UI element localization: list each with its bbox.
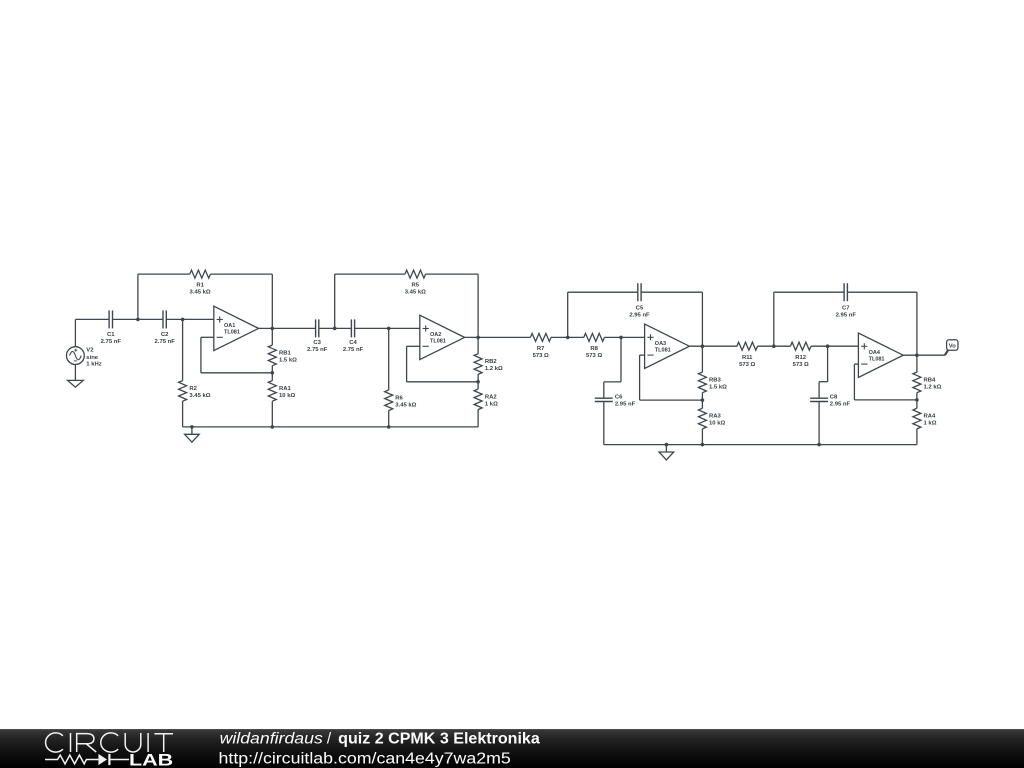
node OA4 output junction (915, 353, 919, 357)
wire OA1 output to C3 (259, 327, 316, 329)
node C8 rail junction (817, 443, 821, 447)
svg-text:C6: C6 (615, 395, 623, 401)
wire node E to OA2 plus input (389, 327, 420, 329)
wire OA1 minus input left (201, 336, 214, 338)
capacitor C6 2.95 nF (595, 395, 636, 408)
svg-text:3.45 kΩ: 3.45 kΩ (189, 393, 210, 399)
svg-text:RB2: RB2 (485, 359, 498, 365)
op-amp OA3 TL081 (645, 324, 690, 368)
svg-text:573 Ω: 573 Ω (533, 353, 549, 359)
svg-text:C5: C5 (636, 306, 644, 312)
svg-text:R2: R2 (189, 386, 197, 392)
svg-text:RA2: RA2 (485, 395, 498, 401)
svg-text:1.2 kΩ: 1.2 kΩ (485, 366, 503, 372)
node OA1 output junction (271, 327, 275, 331)
logo resistor-diode symbol (45, 754, 129, 765)
svg-text:2.95 nF: 2.95 nF (836, 312, 857, 318)
wire node A to C2 (138, 318, 163, 320)
wire OA4 minus feedback bottom (854, 399, 917, 401)
wire node A up to R1 feedback (137, 274, 139, 319)
svg-text:TL081: TL081 (224, 330, 240, 336)
wire OA2 minus input left (407, 345, 420, 347)
output flag pin (945, 350, 948, 355)
svg-text:C3: C3 (313, 340, 321, 346)
wire OA3 minus feedback bottom (640, 399, 703, 401)
svg-text:C8: C8 (830, 395, 838, 401)
ground rail stage 3-4 (604, 444, 917, 446)
resistor RA4 1 k (913, 400, 937, 445)
footer url line (219, 751, 511, 768)
wire node F to R8 (568, 336, 584, 338)
svg-text:10 kΩ: 10 kΩ (709, 421, 725, 427)
svg-text:1.5 kΩ: 1.5 kΩ (709, 385, 727, 391)
svg-text:R1: R1 (196, 282, 204, 288)
svg-text:RA3: RA3 (709, 414, 722, 420)
svg-text:C1: C1 (107, 332, 115, 338)
node H junction (772, 344, 776, 348)
resistor RA2 1 k (474, 382, 498, 427)
capacitor C8 2.95 nF (810, 395, 850, 408)
svg-text:Vo: Vo (949, 343, 956, 349)
svg-text:C2: C2 (161, 332, 169, 338)
resistor R2 3.45 k (179, 381, 211, 402)
resistor RA1 10 k (268, 373, 295, 427)
svg-text:/: / (327, 731, 332, 748)
wire node G down (620, 337, 622, 382)
wire R7 to node F (551, 336, 568, 338)
wire C5 feedback left segment (568, 291, 638, 293)
wire OA2 output to R7 (465, 336, 531, 338)
wire OA1 minus feedback bottom (201, 372, 272, 374)
wire R11 to node H (758, 345, 774, 347)
svg-text:TL081: TL081 (655, 347, 671, 353)
node E junction (387, 327, 391, 331)
wire R5 feedback right segment (426, 273, 479, 275)
wire node H up to C7 feedback (773, 292, 775, 346)
resistor RA3 10 k (698, 400, 725, 445)
svg-text:OA3: OA3 (655, 341, 666, 347)
wire node B to OA1 plus input (183, 318, 214, 320)
op-amp OA1 TL081 (214, 306, 259, 350)
wire OA1 minus down (200, 337, 202, 373)
svg-text:2.95 nF: 2.95 nF (830, 401, 851, 407)
svg-text:R8: R8 (590, 346, 598, 352)
svg-text:quiz 2 CPMK 3 Elektronika: quiz 2 CPMK 3 Elektronika (338, 731, 540, 748)
wire node B down to R2 (182, 319, 184, 380)
wire OA3 minus down (639, 355, 641, 400)
svg-text:573 Ω: 573 Ω (793, 362, 809, 368)
wire node I down (827, 346, 829, 382)
capacitor C5 2.95 nF (629, 283, 650, 318)
resistor R5 3.45 k (405, 270, 426, 295)
node OA2 output junction (476, 336, 480, 340)
svg-text:V2: V2 (86, 348, 94, 354)
wire V2 bottom (74, 365, 76, 381)
svg-text:TL081: TL081 (430, 339, 446, 345)
node F junction (566, 336, 570, 340)
wire R12 to node I (811, 345, 828, 347)
ground rail stage 1-2 (183, 426, 479, 428)
svg-text:R12: R12 (795, 355, 807, 361)
capacitor C3 2.75 nF (307, 319, 328, 353)
wire C7 feedback left segment (774, 291, 844, 293)
wire OA4 output to Vo (903, 354, 945, 356)
svg-text:C7: C7 (842, 306, 850, 312)
resistor RB1 1.5 k (268, 328, 297, 372)
wire C4 to node E (355, 327, 389, 329)
svg-text:R7: R7 (537, 346, 545, 352)
svg-text:R6: R6 (395, 395, 403, 401)
wire C7 feedback down to OA4 output (916, 292, 918, 355)
resistor RB3 1.5 k (698, 346, 727, 400)
footer bar (0, 729, 1024, 768)
node RA1 rail junction (271, 425, 275, 429)
svg-text:OA1: OA1 (224, 323, 235, 329)
node R6 rail junction (387, 425, 391, 429)
svg-text:1.5 kΩ: 1.5 kΩ (279, 358, 297, 364)
wire OA4 minus down (853, 364, 855, 400)
svg-text:LAB: LAB (129, 751, 173, 768)
wire C2 to node B (166, 318, 182, 320)
wire C6 to ground rail (603, 402, 605, 445)
ground below V2 (68, 380, 84, 387)
ground symbol stage 1-2 (185, 427, 200, 442)
wire node G to OA3 plus input (621, 336, 645, 338)
svg-text:R11: R11 (742, 355, 753, 361)
svg-text:1 kΩ: 1 kΩ (924, 421, 937, 427)
op-amp OA2 TL081 (420, 315, 465, 359)
node A junction (136, 318, 140, 322)
svg-text:RA4: RA4 (924, 414, 937, 420)
wire feedback top right segment (210, 273, 272, 275)
wire R5 feedback down to OA2 output (477, 274, 479, 337)
logo word CIRCUIT (46, 733, 173, 752)
svg-text:R5: R5 (412, 282, 420, 288)
node Vo output flag (947, 340, 958, 350)
wire OA3 minus input left (640, 354, 645, 356)
svg-text:RA1: RA1 (279, 386, 292, 392)
svg-text:RB1: RB1 (279, 351, 292, 357)
svg-text:2.95 nF: 2.95 nF (615, 401, 636, 407)
svg-text:C4: C4 (349, 340, 357, 346)
svg-text:10 kΩ: 10 kΩ (279, 393, 295, 399)
resistor R8 573 (584, 333, 605, 359)
wire C5 feedback right segment (641, 291, 702, 293)
wire node I to OA4 plus input (828, 345, 859, 347)
capacitor C1 2.75 nF (101, 310, 122, 345)
voltage source V2 sine 1 kHz (67, 347, 102, 368)
resistor R7 573 (530, 333, 551, 359)
svg-text:3.45 kΩ: 3.45 kΩ (405, 289, 426, 295)
svg-text:2.75 nF: 2.75 nF (101, 339, 122, 345)
resistor RB2 1.2 k (474, 337, 503, 381)
node RB4-RA4 junction (915, 398, 919, 402)
svg-text:3.45 kΩ: 3.45 kΩ (395, 402, 416, 408)
wire R2 to ground rail (182, 401, 184, 427)
wire OA2 minus feedback bottom (407, 381, 479, 383)
capacitor C7 2.95 nF (836, 283, 857, 318)
footer title line (220, 731, 541, 748)
wire jog to C8 (819, 382, 828, 399)
svg-text:573 Ω: 573 Ω (739, 362, 755, 368)
ground symbol stage 3-4 (659, 445, 674, 460)
svg-text:OA4: OA4 (869, 350, 881, 356)
node RB2-RA2 junction (476, 380, 480, 384)
svg-text:2.75 nF: 2.75 nF (343, 347, 364, 353)
svg-text:3.45 kΩ: 3.45 kΩ (190, 289, 211, 295)
svg-text:1 kΩ: 1 kΩ (485, 402, 498, 408)
svg-text:wildanfirdaus: wildanfirdaus (220, 731, 324, 748)
svg-text:2.95 nF: 2.95 nF (629, 312, 650, 318)
svg-text:TL081: TL081 (869, 356, 885, 362)
resistor R6 3.45 k (385, 390, 417, 411)
wire node D up to R5 feedback (334, 274, 336, 328)
node I junction (826, 344, 830, 348)
resistor R11 573 (737, 342, 758, 368)
svg-text:1 kHz: 1 kHz (86, 362, 101, 368)
wire C7 feedback right segment (848, 291, 917, 293)
wire node H to R12 (774, 345, 791, 347)
svg-text:1.2 kΩ: 1.2 kΩ (924, 385, 942, 391)
wire feedback down to OA1 output (271, 274, 273, 328)
capacitor C2 2.75 nF (155, 310, 176, 345)
resistor RB4 1.2 k (913, 355, 942, 400)
wire R6 to ground rail (388, 411, 390, 427)
node rail ground junction (190, 425, 194, 429)
svg-text:RB4: RB4 (924, 378, 937, 384)
node RB3-RA3 junction (701, 398, 705, 402)
svg-text:573 Ω: 573 Ω (586, 353, 602, 359)
wire C1 to node A (113, 318, 138, 320)
wire V2 to C1 (75, 318, 109, 320)
svg-text:2.75 nF: 2.75 nF (307, 347, 328, 353)
wire C3 to node D (319, 327, 335, 329)
node RA3 rail junction (701, 443, 705, 447)
wire node E down to R6 (388, 328, 390, 390)
wire OA2 minus down (406, 346, 408, 382)
logo word LAB (129, 751, 173, 768)
svg-text:sine: sine (86, 355, 99, 361)
node B junction (181, 318, 185, 322)
capacitor C4 2.75 nF (343, 319, 364, 353)
wire OA4 minus input left (854, 363, 858, 365)
svg-text:2.75 nF: 2.75 nF (155, 339, 176, 345)
wire C8 to ground rail (818, 402, 820, 445)
wire jog to C6 (604, 382, 621, 398)
node OA3 output junction (701, 344, 705, 348)
svg-text:OA2: OA2 (430, 332, 441, 338)
wire feedback top left segment (138, 273, 190, 275)
op-amp OA4 TL081 (858, 333, 903, 377)
wire V2 top (74, 319, 76, 346)
wire node D to C4 (335, 327, 352, 329)
node D junction (333, 327, 337, 331)
node rail2 ground junction (665, 443, 669, 447)
resistor R12 573 (790, 342, 811, 368)
svg-text:http://circuitlab.com/can4e4y7: http://circuitlab.com/can4e4y7wa2m5 (219, 751, 511, 768)
wire OA3 output to R11 (689, 345, 737, 347)
node G junction (619, 336, 623, 340)
node RB1-RA1 junction (271, 371, 275, 375)
wire R8 to node G (604, 336, 621, 338)
wire node F up to C5 feedback (567, 292, 569, 337)
svg-text:RB3: RB3 (709, 378, 722, 384)
wire R5 feedback left segment (335, 273, 405, 275)
resistor R1 3.45 k (190, 270, 211, 295)
wire C5 feedback down to OA3 output (701, 292, 703, 346)
